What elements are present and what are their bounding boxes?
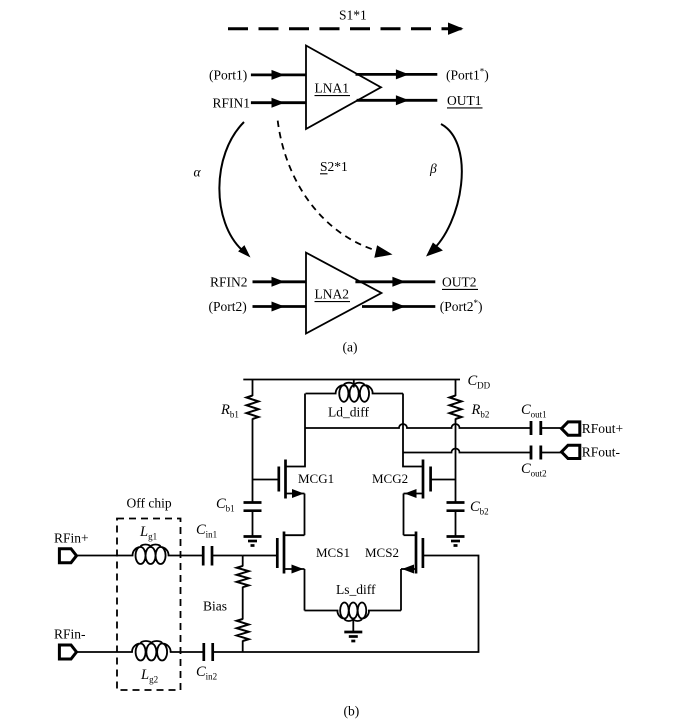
svg-text:Ld_diff: Ld_diff — [328, 405, 369, 420]
transistor MCS1 — [277, 532, 304, 574]
wire Port1 input arrow — [251, 70, 306, 80]
capacitor Cin2 — [204, 643, 213, 661]
inductor Ls_diff — [305, 603, 402, 633]
label Lg1 — [139, 524, 157, 542]
transistor MCG2 — [403, 453, 456, 499]
wire RFIN2 input arrow — [253, 277, 307, 287]
label MCS2 — [365, 545, 399, 560]
wire Port1* output arrow — [356, 69, 438, 79]
wire Port2* output arrow — [362, 302, 435, 312]
wire MCS1 source down — [304, 569, 306, 611]
ground Cb1 — [244, 537, 262, 546]
svg-text:MCS1: MCS1 — [316, 545, 350, 560]
label Rb2 — [471, 402, 490, 420]
wire Lg1 to Cin1 — [168, 555, 204, 557]
svg-text:RFin+: RFin+ — [54, 531, 89, 546]
off-chip dashed box — [117, 519, 181, 691]
label MCS1 — [316, 545, 350, 560]
port RFout+ — [562, 421, 624, 436]
inductor Lg1 — [133, 544, 169, 564]
resistor Rb1 — [247, 396, 259, 420]
svg-text:RFout+: RFout+ — [582, 421, 623, 436]
wire alpha feedback curve — [219, 122, 250, 258]
node (Port2) — [209, 299, 247, 314]
label Cout1 — [521, 402, 547, 420]
node (Port1*) — [446, 67, 489, 83]
wire S1*1 dashed arrow — [228, 23, 464, 35]
wire OUT1 output arrow — [357, 95, 438, 105]
port RFin- — [54, 627, 86, 660]
svg-text:α: α — [194, 165, 202, 180]
node C_DD — [468, 373, 491, 391]
svg-text:(b): (b) — [344, 704, 360, 719]
svg-text:MCG1: MCG1 — [298, 471, 334, 486]
label (a) — [343, 340, 358, 355]
node (Port2*) — [440, 298, 483, 314]
wire RFin- to Lg2 — [77, 651, 133, 653]
wire bias middle — [242, 556, 244, 653]
label (b) — [344, 704, 360, 719]
svg-text:RFIN2: RFIN2 — [210, 274, 248, 289]
svg-text:RFout-: RFout- — [582, 445, 621, 460]
svg-text:OUT1: OUT1 — [447, 93, 482, 108]
wire Rb2 bottom to Cb2 (crosses output lines under hops) — [455, 419, 457, 503]
transistor MCS2 — [401, 532, 423, 574]
label Cb1 — [216, 496, 235, 514]
wire Rb1 bottom to Cb1 — [252, 419, 254, 503]
resistor Bias lower — [237, 619, 249, 641]
label Ld_diff — [328, 405, 369, 420]
svg-text:S2*1: S2*1 — [320, 159, 348, 174]
wire MCS2 gate lead to right vertical — [213, 556, 479, 653]
node alpha — [194, 165, 202, 180]
resistor Rb2 — [450, 396, 462, 420]
node S2*1 — [320, 159, 348, 174]
wire S2*1 dashed curve — [278, 121, 393, 258]
node beta — [429, 161, 437, 176]
svg-text:(Port1): (Port1) — [209, 68, 247, 83]
resistor Bias upper — [237, 566, 249, 587]
svg-text:LNA1: LNA1 — [315, 81, 350, 96]
node OUT1 — [447, 93, 483, 108]
wire Rb1 top — [252, 380, 254, 397]
wire MCS1 gate lead — [243, 555, 278, 557]
label Rb1 — [220, 402, 239, 420]
svg-text:RFIN1: RFIN1 — [213, 95, 251, 110]
node OUT2 — [442, 275, 478, 290]
op-amp LNA2 — [306, 253, 381, 334]
ground Ls_diff — [344, 632, 362, 641]
node (Port1) — [209, 68, 247, 83]
label Ls_diff — [336, 582, 376, 597]
svg-text:(a): (a) — [343, 340, 358, 355]
svg-text:Ls_diff: Ls_diff — [336, 582, 376, 597]
svg-text:RFin-: RFin- — [54, 627, 86, 642]
capacitor Cout2 — [531, 446, 561, 460]
capacitor Cin1 — [203, 546, 212, 566]
svg-text:MCG2: MCG2 — [372, 471, 408, 486]
wire MCG1 source to MCS1 drain — [304, 494, 306, 536]
wire MCS2 source down — [400, 569, 402, 611]
wire Ld_diff left down to MCG1 drain — [286, 394, 306, 467]
port RFout- — [562, 445, 621, 460]
svg-text:(Port2): (Port2) — [209, 299, 247, 314]
svg-text:S1*1: S1*1 — [339, 8, 367, 23]
svg-text:MCS2: MCS2 — [365, 545, 399, 560]
wire beta feedback curve — [426, 124, 462, 257]
capacitor Cout1 — [531, 421, 561, 435]
wire RFin+ to Lg1 — [77, 555, 134, 557]
inductor Ld_diff — [306, 380, 404, 402]
label Cout2 — [521, 461, 547, 479]
wire OUT2 output arrow — [355, 277, 435, 287]
capacitor Cb2 — [447, 503, 465, 537]
op-amp LNA1 — [306, 46, 381, 130]
svg-text:β: β — [429, 161, 437, 176]
label Cin1 — [196, 522, 217, 540]
inductor Lg2 — [132, 641, 171, 661]
label S1*1 — [339, 8, 367, 23]
wire RFout+ line with hops — [305, 424, 531, 428]
svg-text:Bias: Bias — [203, 599, 227, 614]
wire Lg2 to Cin2 — [170, 651, 204, 653]
svg-text:Off chip: Off chip — [127, 496, 172, 511]
label Off chip — [127, 496, 172, 511]
label Cin2 — [196, 664, 217, 682]
wire MCG2 source to MCS2 drain — [403, 494, 405, 536]
wire Ld_diff right down — [402, 394, 404, 453]
node RFIN1 — [213, 95, 251, 110]
transistor MCG1 — [253, 460, 305, 499]
node RFIN2 — [210, 274, 248, 289]
label MCG1 — [298, 471, 334, 486]
ground Cb2 — [447, 537, 465, 546]
capacitor Cb1 — [244, 503, 262, 537]
port RFin+ — [54, 531, 89, 563]
label Bias — [203, 599, 227, 614]
wire RFIN1 input arrow — [251, 98, 306, 108]
label MCG2 — [372, 471, 408, 486]
wire VDD rail — [243, 379, 460, 381]
wire Cin1 to MCS1 gate — [212, 555, 243, 557]
svg-text:OUT2: OUT2 — [442, 275, 477, 290]
wire RFout- line with hop — [403, 449, 531, 453]
wire Port2 input arrow — [253, 302, 307, 312]
label Cb2 — [470, 499, 489, 517]
wire Rb2 top — [455, 380, 457, 397]
svg-text:LNA2: LNA2 — [315, 287, 350, 302]
label Lg2 — [140, 667, 158, 685]
